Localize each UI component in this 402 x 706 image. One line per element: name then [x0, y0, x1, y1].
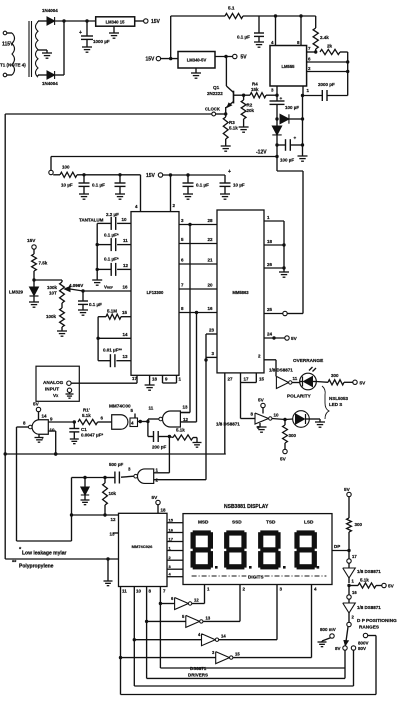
resistor 5.1k one-shot	[169, 428, 201, 448]
resistor 5.1M pin 15	[98, 309, 131, 320]
svg-text:16: 16	[123, 285, 129, 290]
wire VREF to pin 16	[83, 285, 131, 292]
terminal 15V output	[135, 19, 161, 25]
wire -12V rail	[51, 155, 279, 158]
svg-text:10: 10	[50, 428, 56, 433]
wire counter pin 11	[119, 587, 127, 695]
wire gate1 pin 9	[48, 420, 76, 423]
svg-text:7.5k: 7.5k	[39, 261, 48, 266]
inverter driver LSD	[121, 650, 312, 664]
svg-text:15V: 15V	[146, 173, 156, 179]
wire MM5863 pin 27	[225, 373, 233, 454]
display NSB3881	[183, 514, 332, 585]
resistor 2k	[320, 44, 348, 55]
buffer dp driver B	[343, 599, 382, 613]
ground LF13300 pin 18	[145, 375, 158, 390]
svg-text:+: +	[294, 136, 297, 141]
wire counter pin 7	[159, 587, 166, 669]
wire counter pin 10	[133, 587, 142, 687]
terminal 80V	[351, 646, 366, 686]
resistor 7.5k	[32, 254, 48, 282]
svg-text:11: 11	[122, 589, 127, 594]
ground LM340-15	[109, 26, 119, 38]
label POLARITY	[287, 394, 312, 399]
svg-text:5.1k: 5.1k	[82, 413, 91, 418]
svg-text:100k: 100k	[46, 314, 57, 319]
svg-text:24: 24	[267, 332, 273, 337]
capacitor 500pF	[72, 462, 124, 484]
svg-text:LM340-5V: LM340-5V	[187, 58, 207, 63]
wire display DP	[332, 544, 349, 551]
svg-text:LSD: LSD	[304, 520, 314, 525]
svg-text:0.1 µF: 0.1 µF	[89, 302, 102, 307]
timer LM555 U4	[270, 46, 307, 87]
terminal 800V	[358, 633, 376, 694]
terminal 8V	[335, 646, 347, 679]
svg-text:10: 10	[122, 217, 128, 222]
resistor 5.1 ohm and V+ rail	[171, 6, 316, 19]
svg-text:13: 13	[206, 616, 211, 621]
svg-text:100k: 100k	[47, 285, 58, 290]
capacitor 0.1uF V+ bypass	[183, 175, 210, 199]
wire range row b	[147, 677, 345, 679]
wire row pin8-16	[179, 306, 217, 314]
svg-text:14: 14	[123, 332, 129, 337]
wire pin 14	[98, 332, 131, 338]
svg-text:4.096V: 4.096V	[69, 283, 83, 288]
wire 555 pin 1	[301, 86, 310, 97]
resistor 2.4k	[313, 16, 329, 49]
svg-text:10 µF: 10 µF	[233, 183, 245, 188]
terminal dp pin 16	[347, 586, 358, 600]
wire polarity node	[272, 418, 287, 421]
wire -12V to MM5863 pin 25	[277, 157, 303, 314]
svg-text:300: 300	[289, 433, 297, 438]
wire display digit 2	[240, 585, 246, 622]
wire comparator to gate3 pin 13	[180, 225, 190, 413]
svg-text:16: 16	[208, 306, 214, 311]
label DIGITS	[192, 574, 327, 579]
wire range 80V row	[134, 685, 353, 687]
svg-text:12: 12	[123, 263, 129, 268]
capacitor 0.1uF 555 bypass	[237, 16, 264, 47]
wire integrator bus	[96, 317, 99, 361]
svg-text:ANALOG: ANALOG	[43, 380, 64, 385]
wire display digit 1	[205, 585, 211, 604]
capacitor 100uF pump	[270, 95, 300, 121]
svg-text:15k: 15k	[251, 87, 259, 92]
label NSL5053 LEDS bracket	[322, 386, 349, 419]
labels digit names	[198, 520, 314, 525]
svg-text:20k: 20k	[247, 108, 255, 113]
svg-text:0.1 µF: 0.1 µF	[196, 183, 209, 188]
ground LM340-5V	[191, 68, 201, 78]
wire MM5863 pin 1	[264, 215, 284, 221]
nand gate U7a	[23, 417, 55, 442]
op-amp LF13300 U5	[131, 212, 179, 376]
svg-text:17: 17	[169, 536, 174, 541]
wire gate1 feedback vertical	[16, 427, 18, 541]
svg-text:5V: 5V	[152, 495, 159, 500]
svg-text:15: 15	[259, 377, 265, 382]
terminal 5V gate1	[33, 402, 47, 420]
wire MM5863 pin 25 to -12V	[264, 307, 303, 316]
decimal points	[215, 566, 319, 569]
capacitor 10uF V- bypass	[61, 175, 90, 199]
svg-text:17: 17	[132, 376, 138, 381]
wire gate4 pin 2	[154, 479, 206, 481]
svg-text:80V: 80V	[358, 646, 366, 651]
label -12V	[256, 150, 267, 156]
terminal 15V input to LM340-5V	[146, 56, 179, 62]
wire MM5863 pin 23	[206, 328, 217, 335]
ground tantalum bus	[92, 223, 102, 285]
led overrange NSL5053	[300, 367, 317, 390]
svg-text:17: 17	[352, 554, 357, 559]
wire gate1 output	[17, 426, 29, 428]
transformer T1	[3, 21, 38, 77]
svg-text:-12V: -12V	[256, 150, 267, 156]
inverter driver SSD	[147, 614, 240, 627]
capacitor 2000pF timing	[303, 82, 348, 101]
wire to overrange LED	[292, 382, 300, 384]
svg-text:27: 27	[228, 377, 234, 382]
wire 555 pin 6	[307, 57, 350, 64]
svg-text:18: 18	[161, 508, 167, 513]
svg-text:5.1k: 5.1k	[176, 428, 185, 433]
resistor 5.1k dp	[349, 578, 395, 589]
svg-text:DRIVERS: DRIVERS	[188, 673, 208, 678]
label DP POSITIONING RANGES	[357, 618, 397, 630]
nand gate U7d	[128, 467, 159, 484]
wire MM5863 pin 18	[264, 239, 286, 247]
wire secondary bottom to D2	[38, 75, 47, 76]
svg-text:1/8 DS8871: 1/8 DS8871	[357, 569, 381, 574]
svg-text:0.1 µF*: 0.1 µF*	[104, 233, 119, 238]
resistor R2 20k	[239, 95, 255, 132]
svg-text:21: 21	[208, 258, 214, 263]
svg-text:25: 25	[267, 307, 273, 312]
capacitor C1 0.0047uF	[69, 422, 103, 444]
svg-text:22: 22	[208, 237, 214, 242]
buffer overrange driver	[276, 376, 297, 389]
wire range 800V row	[121, 694, 377, 696]
terminal 5V output	[215, 54, 247, 60]
svg-text:+: +	[79, 30, 82, 36]
svg-text:11: 11	[123, 238, 128, 243]
note low leakage mylar	[19, 547, 67, 557]
capacitor 2.2uF pin 10	[97, 212, 131, 230]
svg-text:0.01 µF**: 0.01 µF**	[103, 348, 122, 353]
wire clock bus left vertical	[4, 114, 6, 559]
wire MM5863 pin 15	[241, 373, 265, 383]
svg-text:13: 13	[183, 405, 189, 410]
svg-text:LM555: LM555	[281, 64, 295, 69]
svg-text:0.1 µF: 0.1 µF	[92, 183, 105, 188]
wire MM5863 pin 26	[264, 262, 286, 270]
terminal 5V counter	[152, 495, 167, 513]
svg-text:2.4k: 2.4k	[320, 35, 329, 40]
counter MM74C926 U8	[119, 513, 168, 586]
wire dp node	[347, 578, 354, 587]
wire LF13300 pin 4	[135, 175, 141, 212]
wiper 4.096V	[65, 283, 85, 293]
svg-text:LM340 15: LM340 15	[106, 20, 126, 25]
svg-text:14: 14	[221, 634, 226, 639]
capacitor 10uF V+ bypass	[220, 169, 245, 199]
led polarity NSL5053	[285, 411, 309, 428]
ground counter clock stub	[104, 557, 113, 585]
terminal 800mV grounded	[318, 627, 336, 647]
transistor Q1 2N2222	[207, 57, 234, 115]
svg-text:10k: 10k	[109, 491, 117, 496]
svg-text:10T: 10T	[49, 291, 57, 296]
terminal 5V dp pullup	[344, 487, 351, 518]
wire 555 pin 2	[307, 66, 350, 73]
svg-text:R4: R4	[252, 82, 258, 87]
terminal 15V reference	[27, 238, 36, 254]
svg-text:12: 12	[111, 517, 117, 522]
svg-text:1N4004: 1N4004	[42, 81, 58, 86]
svg-text:18: 18	[152, 377, 158, 382]
svg-text:0.1 µF: 0.1 µF	[237, 35, 250, 40]
svg-text:2.2 µF: 2.2 µF	[106, 212, 119, 217]
terminal analog input lo	[66, 388, 74, 398]
svg-text:0.1 µF*: 0.1 µF*	[104, 257, 119, 262]
svg-text:100 µF: 100 µF	[280, 158, 294, 163]
wire to counter reset pin 12	[72, 515, 119, 522]
svg-text:+: +	[228, 169, 231, 175]
capacitor 200pF	[148, 422, 171, 450]
svg-text:15: 15	[235, 652, 240, 657]
svg-text:5V: 5V	[360, 380, 367, 385]
wire logic bus y454	[3, 452, 225, 455]
svg-text:28: 28	[208, 218, 214, 223]
svg-text:MM74C926: MM74C926	[132, 544, 153, 549]
svg-text:200 pF: 200 pF	[152, 445, 167, 450]
svg-text:15V: 15V	[146, 57, 156, 63]
svg-text:VREF: VREF	[104, 285, 113, 290]
wire 555 pin 3	[271, 86, 277, 95]
svg-text:OVERRANGE: OVERRANGE	[293, 358, 323, 363]
wire one-shot vertical	[70, 478, 73, 542]
svg-text:VX: VX	[53, 393, 59, 398]
ground polarity driver	[257, 423, 267, 432]
resistor 10k one-shot	[103, 478, 117, 517]
svg-text:NSB3881 DISPLAY: NSB3881 DISPLAY	[224, 504, 269, 510]
wire LF13300 pin 17	[132, 375, 138, 383]
capacitor 100uF minus12 filter	[275, 136, 304, 163]
regulator LM340-15 U2	[96, 17, 135, 26]
capacitor 1000uF filter	[79, 21, 110, 52]
svg-text:T1 (NOTE 4): T1 (NOTE 4)	[0, 63, 26, 68]
wire MM5863 pin 2 overrange	[258, 354, 276, 377]
resistor 100 ohm	[53, 165, 140, 178]
label OVERRANGE	[293, 358, 323, 363]
svg-text:5.1k: 5.1k	[229, 126, 238, 131]
inverter driver MSD	[160, 596, 204, 610]
label TANTALUM	[79, 218, 104, 223]
svg-text:100: 100	[62, 165, 70, 170]
segment digit MSD	[191, 530, 214, 569]
terminal CLOCK	[205, 107, 227, 116]
wire polarity to gate3 pin 12	[196, 313, 198, 422]
resistor R1' 5.1k	[78, 408, 112, 425]
ground 555 pin1 rail	[298, 96, 308, 162]
svg-text:2000 pF: 2000 pF	[318, 82, 335, 87]
segment digit TSD	[258, 530, 281, 569]
wire gate1 pin 10	[48, 431, 57, 456]
wire control bus x206	[205, 334, 207, 480]
wire to gate4 pin 1	[154, 437, 170, 473]
resistor 300 overrange	[316, 373, 366, 385]
label 115V	[2, 42, 14, 48]
diode D3 pump	[280, 114, 304, 123]
svg-text:+: +	[280, 96, 283, 101]
svg-text:13: 13	[123, 354, 129, 359]
svg-text:1000 µF: 1000 µF	[93, 39, 110, 44]
capacitor 0.01uF pin 13	[98, 348, 131, 368]
svg-text:800 mV: 800 mV	[320, 627, 336, 632]
svg-text:18: 18	[267, 239, 273, 244]
diode D4 pump	[272, 119, 281, 157]
svg-text:5V: 5V	[291, 336, 298, 341]
resistor R4 15k	[244, 82, 279, 98]
svg-text:R2: R2	[247, 103, 253, 108]
wire Q1 base node	[234, 94, 246, 97]
svg-text:1/8 DS8871: 1/8 DS8871	[357, 605, 381, 610]
svg-text:LF13300: LF13300	[147, 290, 164, 295]
svg-text:11: 11	[149, 406, 154, 411]
svg-text:15: 15	[122, 310, 128, 315]
segment digit LSD	[294, 530, 317, 569]
capacitor 0.1uF pin 11	[96, 233, 132, 252]
svg-text:LED S: LED S	[329, 402, 342, 407]
wire dp switch pole	[347, 613, 355, 627]
terminal analog input hi	[67, 381, 137, 385]
terminal on -12V feed	[49, 157, 53, 175]
capacitor 0.1uF V- bypass	[92, 175, 126, 199]
wire segment lines a-g	[167, 518, 183, 577]
svg-text:C1: C1	[81, 427, 87, 432]
svg-text:Polypropylene: Polypropylene	[19, 564, 54, 570]
svg-text:11: 11	[293, 376, 298, 381]
svg-text:R3: R3	[229, 120, 235, 125]
note polypropylene	[12, 560, 54, 570]
svg-text:17: 17	[244, 377, 250, 382]
wire MM5863 pin 17 polarity	[241, 373, 256, 419]
resistor 100k lower	[46, 303, 67, 336]
wire gate2 output node	[138, 419, 161, 423]
terminal 5V MM5863 pin 24	[264, 332, 298, 342]
label MM74C00	[109, 404, 131, 409]
capacitor 0.1uF pin 12	[96, 257, 132, 276]
label 1/8 DS8871 overrange	[269, 368, 293, 373]
svg-text:23: 23	[209, 328, 215, 333]
diode D1 1N4004	[42, 8, 58, 25]
svg-text:500 pF: 500 pF	[109, 462, 124, 467]
svg-text:LM329: LM329	[9, 290, 24, 295]
svg-text:TANTALUM: TANTALUM	[79, 218, 104, 223]
svg-text:5.1k: 5.1k	[360, 578, 369, 583]
svg-text:300: 300	[355, 522, 363, 527]
svg-text:13: 13	[110, 532, 116, 537]
wire counter pin 13 stub	[110, 532, 119, 537]
svg-text:NSL5053: NSL5053	[329, 396, 349, 401]
nand gate U7c	[149, 405, 189, 428]
wire secondary top to D1	[38, 21, 47, 22]
svg-text:1N4004: 1N4004	[42, 8, 58, 13]
svg-text:Low leakage mylar: Low leakage mylar	[22, 551, 67, 557]
ground gate1 pin 7	[35, 434, 44, 442]
svg-text:5V: 5V	[280, 457, 287, 462]
svg-text:MSD: MSD	[198, 520, 209, 525]
wire 555 pin 4	[271, 16, 276, 46]
regulator LM340-5V U3	[178, 52, 215, 69]
wire 555 pin 8	[297, 16, 301, 46]
wire 555 pin 7	[307, 46, 318, 54]
svg-text:MM74C00: MM74C00	[109, 404, 131, 409]
svg-text:300: 300	[331, 373, 339, 378]
buffer polarity driver	[251, 412, 280, 431]
svg-text:DP: DP	[334, 544, 340, 549]
nand gate U7b	[112, 408, 138, 429]
svg-text:0.0047 µF*: 0.0047 µF*	[81, 433, 103, 438]
svg-text:DIGITS: DIGITS	[248, 574, 264, 579]
svg-text:SSD: SSD	[232, 520, 242, 525]
svg-text:R1′: R1′	[83, 408, 90, 413]
wire clock to counter	[5, 558, 118, 560]
wire MM5863 pin 3	[204, 351, 217, 362]
wire clock bus top	[5, 113, 212, 115]
wire 555 timing node	[347, 52, 349, 96]
ground MM5863 digital pins	[279, 221, 289, 277]
svg-text:5V: 5V	[388, 584, 395, 589]
svg-text:INPUT: INPUT	[45, 387, 59, 392]
inverter driver TSD	[134, 632, 277, 646]
wire LF13300 pin 2	[171, 175, 176, 212]
adc MM5863 U6	[217, 210, 264, 373]
svg-text:10: 10	[136, 589, 142, 594]
switch wiper dp range	[344, 627, 348, 646]
wire row pin7-20	[179, 283, 217, 290]
svg-text:10 µF: 10 µF	[61, 183, 73, 188]
wire one-shot to gate1	[17, 540, 72, 542]
svg-text:100 µF: 100 µF	[285, 105, 299, 110]
zener LM329 D6	[9, 280, 39, 307]
svg-text:800V: 800V	[358, 641, 369, 646]
svg-text:12: 12	[194, 598, 199, 603]
analog input box	[36, 366, 79, 401]
svg-text:D P POSITIONING: D P POSITIONING	[357, 618, 397, 623]
svg-text:5V: 5V	[258, 398, 265, 403]
svg-text:RANGES: RANGES	[359, 625, 379, 630]
wire gate3 pin 13 stub	[180, 412, 190, 414]
svg-text:20: 20	[208, 283, 214, 288]
buffer dp driver A	[343, 563, 382, 578]
wire rectifier output node	[54, 19, 95, 22]
resistor 300 polarity	[280, 420, 297, 462]
svg-text:15V: 15V	[27, 238, 36, 243]
wire gate4 output	[121, 476, 134, 477]
svg-text:5V: 5V	[241, 55, 248, 61]
svg-text:2N2222: 2N2222	[207, 91, 223, 96]
svg-text:115V: 115V	[2, 42, 14, 48]
wire pins 9-1 strap	[163, 375, 182, 383]
svg-text:16: 16	[169, 527, 174, 532]
svg-text:2k: 2k	[327, 44, 333, 49]
svg-text:CLOCK: CLOCK	[205, 107, 220, 112]
